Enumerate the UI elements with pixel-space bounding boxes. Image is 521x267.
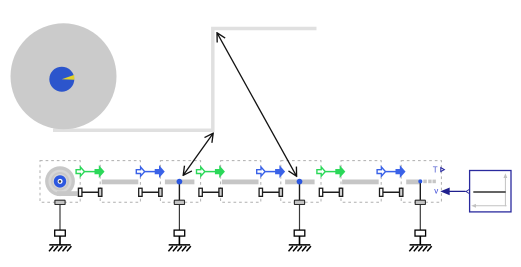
svg-text:T: T: [433, 165, 438, 174]
svg-text:v: v: [434, 187, 438, 196]
